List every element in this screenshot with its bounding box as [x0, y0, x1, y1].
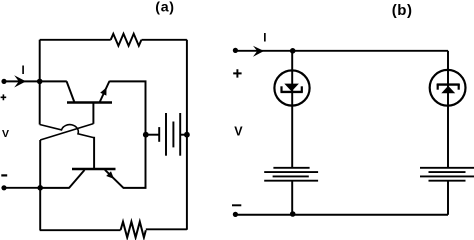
D2 anode triangle	[441, 86, 455, 94]
Q1 collector diagonal	[67, 81, 75, 102]
Q2 emitter arrowhead	[106, 171, 114, 179]
Q2 emitter diagonal	[105, 170, 124, 188]
tunnel diode D1 (circle)	[274, 70, 309, 105]
wire: left rail lower segment	[39, 140, 41, 230]
B2 plate 1 short	[273, 167, 309, 169]
B1 right lead	[180, 134, 187, 136]
svg-text:V: V	[2, 128, 9, 140]
Q1 emitter arrowhead	[100, 87, 106, 95]
B3 plate 2 short	[429, 171, 466, 173]
label + (a)	[1, 94, 7, 100]
B2 plate 2 long	[264, 171, 318, 173]
label - (b)	[232, 204, 241, 206]
wire: bottom wire left of resistor	[40, 229, 121, 231]
battery B1 (a)	[146, 113, 187, 156]
wire: cross-coupling upper-rail to lower-base (with hop)	[40, 125, 94, 138]
D1 cathode flange right	[301, 86, 303, 92]
wire: top wire	[235, 50, 448, 52]
node: lower rail junction	[37, 185, 43, 191]
svg-text:I: I	[263, 32, 266, 44]
B3 plate 3 long	[420, 175, 474, 177]
B3 plate 1 long	[420, 167, 474, 169]
label + (b)	[233, 69, 241, 77]
wire: left branch lower	[291, 181, 293, 215]
wire: Q1 collector to left rail	[40, 80, 67, 82]
D1 wire through	[291, 71, 293, 106]
D1 anode triangle	[284, 84, 299, 92]
node: right rail battery junction	[184, 132, 190, 138]
node: upper rail junction	[37, 79, 43, 85]
wire: top wire left of resistor	[40, 39, 111, 41]
current arrow I (b)	[253, 46, 264, 57]
wire: right branch lower	[447, 181, 449, 215]
B2 plate 4 long	[264, 180, 318, 182]
B1 left lead	[146, 134, 159, 136]
label - (a)	[1, 174, 7, 176]
B1 plate 4 long	[179, 113, 181, 156]
node: bottom junction	[290, 211, 296, 217]
wire: left branch upper	[291, 51, 293, 71]
svg-text:V: V	[234, 125, 243, 139]
D2 cathode bar	[437, 83, 460, 85]
wire: cross-coupling upper-base to lower rail	[40, 124, 93, 140]
Q1 emitter diagonal	[100, 81, 110, 103]
svg-text:I: I	[22, 65, 25, 77]
D1 cathode bar	[281, 91, 303, 93]
wire: right branch upper	[447, 51, 449, 70]
D2 cathode flange right	[458, 84, 460, 90]
B1 plate 3 short	[172, 122, 174, 148]
Q2 collector diagonal	[69, 170, 85, 188]
node: upper terminal dot	[1, 79, 6, 84]
wire: Q2 emitter to middle rail	[123, 186, 146, 188]
node: top junction	[290, 48, 296, 54]
wire: left rail upper segment	[39, 40, 41, 125]
node: top terminal dot	[233, 48, 238, 53]
B1 plate 2 long	[165, 113, 167, 156]
B2 plate 3 short	[273, 175, 309, 177]
Q1 base lead	[92, 104, 94, 124]
Q2 base bar	[72, 168, 116, 171]
transistor Q1 (upper, npn)	[67, 81, 112, 124]
transistor Q2 (lower, npn)	[69, 137, 124, 188]
wire: top wire right of resistor	[142, 39, 187, 41]
current arrow I (a)	[14, 75, 26, 87]
resistor R2 (bottom)	[121, 222, 146, 238]
svg-text:(b): (b)	[392, 2, 413, 19]
svg-text:(a): (a)	[155, 0, 174, 15]
Q1 base bar	[67, 101, 112, 104]
B3 plate 4 short	[429, 180, 466, 182]
Q2 base lead	[93, 137, 95, 169]
node: middle rail battery junction	[143, 132, 149, 138]
resistor R1 (top)	[111, 34, 142, 46]
node: lower terminal dot	[1, 185, 6, 190]
battery B2 (b left)	[264, 168, 318, 181]
wire: right rail	[186, 40, 188, 230]
wire: upper terminal lead	[4, 80, 40, 82]
wire: Q2 collector to left rail	[40, 187, 69, 189]
wire: left branch middle	[291, 106, 293, 168]
wire: lower terminal lead	[4, 187, 41, 189]
wire: bottom wire right of resistor	[146, 228, 187, 230]
wire: Q1 emitter to middle rail	[109, 81, 145, 134]
D2 cathode flange left	[437, 84, 439, 90]
wire: middle rail lower part	[145, 134, 147, 188]
battery B3 (b right)	[420, 168, 474, 181]
wire: right branch middle	[447, 106, 449, 168]
node: bottom terminal dot	[233, 212, 238, 217]
D1 cathode flange left	[280, 86, 282, 92]
D2 wire through	[447, 70, 449, 106]
B1 plate 1 short	[158, 127, 160, 142]
tunnel diode D2 (circle)	[430, 70, 466, 106]
wire: bottom wire	[235, 214, 448, 216]
